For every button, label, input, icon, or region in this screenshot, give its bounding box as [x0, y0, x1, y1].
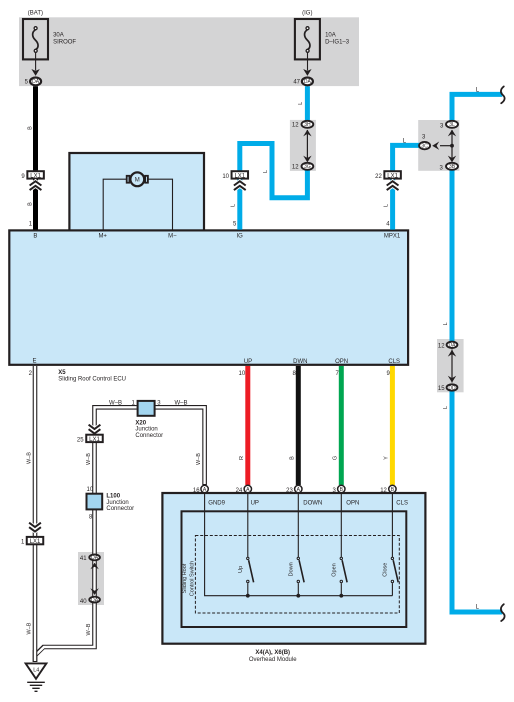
svg-text:W–B: W–B	[196, 453, 202, 465]
svg-text:3G: 3G	[304, 164, 311, 170]
wire L (cyan) right top from off-page to 3L	[452, 94, 502, 124]
connector pair 41DA/40DA with arrows	[89, 555, 100, 604]
svg-text:DA: DA	[91, 555, 99, 561]
module internal wire OPN to switch	[340, 492, 342, 557]
overhead module dashed box	[195, 536, 399, 614]
svg-text:Junction: Junction	[106, 500, 128, 506]
connector shield box 3H/3G	[290, 120, 316, 171]
svg-text:24: 24	[236, 488, 243, 494]
svg-text:DA: DA	[304, 79, 312, 85]
svg-text:10: 10	[239, 371, 246, 377]
svg-text:(BAT): (BAT)	[28, 10, 43, 16]
wire W-B X20 pin3 to module 16A GND9	[156, 407, 205, 485]
svg-text:DOWN: DOWN	[303, 501, 322, 507]
svg-text:L: L	[443, 322, 449, 325]
svg-text:E: E	[32, 358, 36, 364]
wire W-B branch X20 pin1 via 25LX1 L100 41/40 to ground join	[36, 407, 137, 655]
wire L (cyan) 3B down to 12DA	[450, 166, 455, 344]
svg-text:3B: 3B	[449, 164, 456, 170]
module internal wire UP to switch	[247, 492, 249, 557]
svg-text:W–B: W–B	[174, 400, 187, 406]
svg-text:1: 1	[29, 222, 33, 228]
svg-text:16: 16	[193, 488, 200, 494]
motor M symbol	[127, 172, 148, 186]
fuse (BAT) 30A SIROOF	[23, 19, 48, 76]
svg-text:Sliding Roof Control ECU: Sliding Roof Control ECU	[58, 376, 126, 382]
switch Up	[246, 557, 254, 597]
svg-text:X5: X5	[58, 370, 66, 376]
svg-text:1: 1	[21, 539, 25, 545]
connector 47 DA (IG feed)	[302, 78, 313, 86]
svg-text:M+: M+	[98, 234, 107, 240]
svg-text:Down: Down	[288, 562, 294, 576]
svg-text:Junction: Junction	[135, 427, 157, 433]
svg-text:3L: 3L	[449, 122, 455, 128]
svg-text:CLS: CLS	[388, 359, 400, 365]
connector 9 LX1	[27, 171, 43, 190]
svg-text:LX1: LX1	[30, 174, 41, 180]
svg-text:Open: Open	[331, 563, 337, 576]
svg-text:B: B	[27, 202, 33, 206]
svg-text:10A: 10A	[325, 33, 336, 39]
svg-text:G: G	[332, 456, 338, 460]
svg-text:4: 4	[386, 222, 390, 228]
connector pair 12DA/15DD with arrows	[447, 342, 458, 392]
wire Y (yellow) ECU pin 9 CLS to module 12B	[390, 366, 395, 485]
svg-text:Overhead Module: Overhead Module	[249, 657, 297, 663]
svg-text:D–IG1–3: D–IG1–3	[325, 40, 350, 46]
connector shield box 12DA/15DD	[437, 339, 464, 392]
svg-text:3C: 3C	[421, 143, 428, 149]
connector shield box 41/40	[78, 552, 104, 605]
svg-text:B: B	[27, 126, 33, 130]
svg-text:23: 23	[286, 488, 293, 494]
svg-text:25: 25	[77, 437, 84, 443]
module internal wire GND9 to switch common bus	[205, 492, 393, 596]
svg-text:DD: DD	[448, 385, 456, 391]
off-page curl bottom right	[501, 604, 505, 621]
svg-text:UP: UP	[251, 501, 259, 507]
connector 5 DA (BAT feed)	[30, 78, 41, 86]
svg-text:DA: DA	[91, 597, 99, 603]
svg-text:B: B	[33, 234, 37, 240]
wire L (cyan) 3C to ECU pin 4 MPX1 via LX1	[393, 145, 425, 229]
motor sub-box	[69, 153, 204, 231]
svg-text:Y: Y	[384, 456, 390, 460]
svg-text:W–B: W–B	[27, 622, 33, 634]
svg-text:W–B: W–B	[109, 400, 122, 406]
svg-text:CLS: CLS	[396, 501, 408, 507]
svg-text:22: 22	[375, 174, 382, 180]
svg-text:W–B: W–B	[86, 623, 92, 635]
svg-text:B: B	[289, 456, 295, 460]
svg-text:10: 10	[87, 487, 94, 493]
svg-text:2: 2	[29, 371, 33, 377]
motor lead M+	[103, 179, 126, 229]
svg-text:OPN: OPN	[346, 501, 359, 507]
svg-text:L: L	[263, 170, 269, 173]
svg-text:3H: 3H	[304, 122, 311, 128]
connector 22 LX1	[384, 171, 401, 190]
wire R (red) ECU pin 10 UP to module 24A	[245, 366, 250, 485]
svg-text:(IG): (IG)	[302, 10, 312, 16]
svg-text:LX1: LX1	[30, 539, 41, 545]
svg-text:MPX1: MPX1	[384, 234, 401, 240]
svg-text:10: 10	[222, 174, 229, 180]
svg-text:LX1: LX1	[387, 174, 398, 180]
svg-text:L: L	[298, 102, 304, 105]
switch Close	[391, 557, 398, 596]
svg-text:UP: UP	[244, 359, 252, 365]
svg-text:DA: DA	[449, 343, 457, 349]
svg-text:W–B: W–B	[86, 453, 92, 465]
svg-text:DWN: DWN	[293, 359, 307, 365]
wire L (cyan) 15DD down to off-page bottom right	[452, 388, 502, 613]
svg-text:47: 47	[293, 80, 300, 86]
switch Down	[296, 557, 304, 597]
module pin circle 3 B OPN	[338, 485, 345, 493]
module pin circle 12 B CLS	[389, 485, 396, 493]
connector 1 LX1	[27, 523, 44, 545]
switch Open	[339, 557, 347, 597]
svg-text:9: 9	[21, 174, 25, 180]
svg-text:M: M	[135, 178, 140, 184]
svg-text:L: L	[383, 204, 389, 207]
svg-text:41: 41	[80, 556, 87, 562]
fuse (IG) 10A D-IG1-3	[295, 19, 320, 76]
wire B (black) fuse BAT to ECU pin 1 B	[33, 86, 38, 229]
svg-text:Connector: Connector	[135, 433, 163, 439]
svg-text:M−: M−	[168, 234, 177, 240]
svg-text:LX1: LX1	[234, 174, 245, 180]
power strip background	[19, 17, 359, 86]
module pin circle 23 A DOWN	[295, 485, 302, 493]
module pin circle 24 A UP	[244, 485, 251, 493]
wire L (cyan) fuse IG to 3H	[305, 86, 310, 124]
svg-text:12: 12	[292, 123, 299, 129]
wire B (black) ECU pin 8 DWN to module 23A	[296, 366, 301, 485]
svg-text:Sliding RoofControl Switch: Sliding RoofControl Switch	[182, 561, 195, 596]
svg-text:L: L	[231, 204, 237, 207]
wire L (cyan) 3G to ECU pin 5 IG via LX1	[240, 144, 308, 230]
overhead module inner box	[182, 511, 407, 627]
junction connector X20	[138, 401, 155, 416]
svg-text:OPN: OPN	[335, 359, 348, 365]
svg-text:Connector: Connector	[106, 506, 134, 512]
svg-text:L4: L4	[33, 668, 39, 674]
svg-text:Close: Close	[382, 563, 388, 577]
svg-text:SIROOF: SIROOF	[53, 40, 76, 46]
connector cluster 3L/3C/3B with arrows and junction	[419, 121, 458, 170]
svg-text:5: 5	[233, 222, 237, 228]
module pin circle 16 A GND9	[201, 485, 208, 493]
wire W-B main restored below junction	[33, 650, 38, 662]
connector shield box 3L/3C/3B	[418, 120, 459, 171]
ground L4	[26, 663, 47, 691]
svg-text:L: L	[443, 406, 449, 409]
sliding roof control ECU box X5	[9, 230, 408, 364]
svg-text:Up: Up	[238, 566, 244, 573]
module internal wire CLS to switch	[391, 492, 393, 557]
junction connector L100	[87, 494, 103, 510]
svg-text:15: 15	[438, 386, 445, 392]
connector 10 LX1	[232, 171, 249, 190]
svg-text:12: 12	[438, 343, 445, 349]
svg-text:R: R	[239, 456, 245, 460]
svg-text:DA: DA	[32, 79, 40, 85]
overhead module box X4/X6	[162, 493, 425, 644]
svg-text:X4(A), X6(B): X4(A), X6(B)	[255, 650, 290, 656]
svg-text:W–B: W–B	[27, 452, 33, 464]
off-page curl top right	[501, 86, 505, 103]
svg-text:30A: 30A	[53, 33, 64, 39]
svg-text:GND9: GND9	[208, 501, 225, 507]
connector 25 LX1	[86, 425, 103, 443]
wire W-B ECU pin 2 E down to ground	[33, 366, 38, 662]
svg-text:40: 40	[80, 599, 87, 605]
connector pair 3H/3G with arrows	[302, 121, 314, 170]
motor lead M-	[149, 179, 173, 229]
svg-text:12: 12	[292, 165, 299, 171]
module internal wire DOWN to switch	[297, 492, 299, 557]
svg-text:12: 12	[380, 488, 387, 494]
svg-text:X20: X20	[135, 421, 146, 427]
svg-text:LX1: LX1	[89, 437, 100, 443]
svg-text:L100: L100	[106, 494, 120, 500]
svg-text:IG: IG	[237, 234, 244, 240]
wire G (green) ECU pin 7 OPN to module 3B	[339, 366, 344, 485]
